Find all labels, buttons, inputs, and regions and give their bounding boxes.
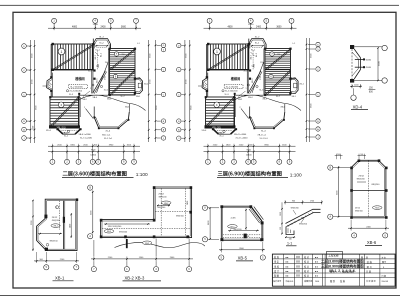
svg-text:XL-2 240x300: XL-2 240x300 (70, 87, 83, 89)
svg-text:Φ8: Φ8 (247, 235, 250, 238)
detail XD-4 landing bars with arrows (355, 58, 364, 60)
plan 1 bottom slab circle label 4 (58, 102, 64, 108)
plan 1 dashed beam outline (69, 85, 88, 89)
detail XB-2 bottom bubbles (91, 267, 96, 272)
detail XB-5 interior dashed lines (223, 234, 262, 236)
detail XB-6 outer walls (351, 160, 386, 218)
svg-text:L-1: L-1 (293, 43, 296, 45)
svg-text:5: 5 (253, 161, 255, 164)
svg-text:C: C (163, 94, 165, 96)
plan 1 stair slab hatched top-left (52, 44, 93, 70)
svg-text:二层(3.600)楼面结构布置图: 二层(3.600)楼面结构布置图 (63, 169, 127, 177)
plan 2 stair slab hatched top-left (208, 44, 249, 70)
svg-text:校 对: 校 对 (304, 269, 310, 273)
svg-text:日 期: 日 期 (382, 274, 387, 278)
svg-text:1: 1 (246, 88, 247, 90)
svg-text:4: 4 (155, 268, 157, 271)
svg-text:7: 7 (76, 266, 78, 269)
svg-text:批 准: 批 准 (274, 255, 280, 259)
svg-text:Φ8@150: Φ8@150 (176, 215, 184, 218)
section 1-1 left dim (281, 202, 283, 234)
floor plan 1 grid bubbles top row (52, 18, 57, 23)
detail XD-4 bubble top right (382, 45, 387, 50)
svg-text:XB-2: XB-2 (164, 203, 168, 205)
svg-text:J: J (178, 138, 179, 140)
svg-text:图 别: 图 别 (330, 279, 335, 283)
svg-text:4800: 4800 (72, 26, 78, 28)
svg-text:2700: 2700 (186, 79, 188, 84)
plan 2 right band circle labels (270, 52, 274, 56)
svg-text:150: 150 (277, 54, 280, 56)
svg-text:A: A (163, 129, 165, 132)
svg-text:1800: 1800 (254, 64, 256, 68)
detail XB-1 outer walls (37, 199, 77, 250)
detail XB-2 vertical stems (126, 239, 128, 248)
svg-text:XB-2: XB-2 (83, 99, 87, 101)
svg-text:XL-2 240x300: XL-2 240x300 (226, 87, 239, 89)
svg-text:2700: 2700 (32, 79, 34, 84)
plan 1 bottom-left slab hatched (50, 97, 79, 127)
svg-text:3000: 3000 (91, 210, 93, 215)
plan 2 break wavy line (233, 95, 301, 110)
svg-text:5: 5 (46, 266, 48, 269)
svg-text:Φ8@200: Φ8@200 (158, 195, 167, 198)
detail XD-4 bubble bottom left (351, 95, 356, 100)
detail XB-1 inner labels (56, 206, 59, 209)
svg-text:2400: 2400 (256, 26, 262, 28)
svg-text:■ ■: ■ ■ (315, 266, 318, 268)
svg-text:C: C (23, 70, 25, 72)
detail XB-1 corner columns (44, 215, 47, 219)
svg-text:Φ8@240: Φ8@240 (119, 231, 128, 234)
title block table outer border (272, 254, 395, 286)
svg-text:1: 1 (216, 50, 218, 54)
svg-text:KL-1: KL-1 (251, 50, 256, 52)
svg-text:4: 4 (95, 20, 97, 23)
detail XB-6 top-left mini dim (335, 155, 343, 157)
svg-text:XD-2: XD-2 (250, 55, 252, 59)
svg-text:11240: 11240 (92, 24, 98, 26)
svg-text:2Φ12: 2Φ12 (158, 192, 164, 195)
svg-text:1650: 1650 (280, 212, 282, 216)
svg-text:■ ■: ■ ■ (315, 276, 318, 278)
svg-text:C: C (163, 69, 165, 71)
svg-text:Φ8@200: Φ8@200 (291, 207, 300, 210)
svg-text:2004: 2004 (315, 281, 319, 283)
detail XD-4 leader line top (354, 46, 382, 48)
svg-text:图号: 图号 (382, 260, 386, 264)
svg-text:9: 9 (133, 161, 135, 164)
svg-text:2: 2 (84, 107, 85, 109)
svg-text:XB-1: XB-1 (136, 96, 140, 98)
svg-text:设 计: 设 计 (274, 269, 280, 273)
svg-text:5: 5 (221, 256, 223, 259)
plan 1 bottom slab diagonal (51, 98, 78, 127)
svg-text:Q6: Q6 (96, 66, 98, 68)
detail XB-2 corner columns (153, 186, 156, 189)
svg-text:6: 6 (92, 161, 94, 164)
detail XB-5 left dim line (209, 208, 211, 239)
svg-text:XL-7: XL-7 (121, 96, 125, 98)
plan 1 slab diagonal arrow (53, 45, 92, 69)
detail XB-6 top mini dim (358, 155, 367, 157)
svg-text:2: 2 (66, 161, 68, 164)
detail XB-1 interior dashed line (59, 201, 61, 230)
svg-text:3000: 3000 (336, 190, 338, 195)
detail XB-1 interior wall (63, 201, 65, 250)
svg-text:1: 1 (209, 20, 211, 23)
svg-text:Φ240: Φ240 (366, 58, 372, 61)
detail XB-1 interior dim line (38, 233, 62, 235)
detail XB-2 bottom dim line (91, 258, 193, 260)
svg-text:D: D (317, 44, 319, 46)
svg-text:楼面结构图: 楼面结构图 (342, 269, 355, 273)
svg-text:3900: 3900 (239, 248, 244, 250)
svg-text:900: 900 (360, 154, 363, 156)
svg-text:B: B (329, 167, 331, 170)
svg-text:5: 5 (98, 161, 100, 164)
svg-text:XL-1: XL-1 (88, 71, 92, 73)
svg-text:Φ8@150: Φ8@150 (50, 240, 59, 243)
svg-text:成图日期: 成图日期 (304, 279, 312, 283)
svg-text:XB-1 L=1: XB-1 L=1 (258, 135, 267, 137)
svg-text:8: 8 (204, 207, 206, 210)
svg-text:XB-1: XB-1 (292, 96, 296, 98)
detail XB-6 centre dashed line (368, 160, 370, 218)
plan 2 bottom bay window (213, 129, 219, 134)
svg-text:■ ■: ■ ■ (286, 257, 289, 259)
section 1-1 bottom support (286, 227, 294, 235)
plan 1 right bay window (135, 78, 143, 94)
svg-text:KL-2: KL-2 (256, 53, 258, 57)
svg-text:B: B (163, 121, 165, 123)
detail XB-6 mid wall (351, 189, 386, 191)
detail XB-2 XB-3 outer walls L-shape (101, 187, 192, 238)
section 1-1 inclined flight slab with landing (287, 213, 321, 227)
detail XB-1 bottom bubbles (44, 265, 49, 270)
svg-text:XD-3: XD-3 (252, 79, 254, 83)
svg-text:校 对: 校 对 (304, 264, 310, 268)
svg-text:结 施: 结 施 (340, 279, 346, 283)
svg-text:2700: 2700 (105, 76, 107, 80)
svg-text:XB-3: XB-3 (145, 243, 149, 245)
title block horizontal rules (272, 258, 395, 260)
svg-text:2400: 2400 (187, 201, 189, 205)
svg-text:XL-1: XL-1 (244, 71, 248, 73)
svg-text:B: B (23, 121, 25, 123)
svg-text:3300: 3300 (32, 53, 34, 58)
svg-text:XB-5: XB-5 (238, 255, 248, 260)
section 1-1 top dimension line (285, 201, 322, 203)
svg-text:三层(6.900)楼面结构布置图: 三层(6.900)楼面结构布置图 (321, 263, 364, 268)
detail XB-2 interior dashed lines (160, 188, 162, 236)
svg-text:L-1: L-1 (137, 43, 140, 45)
plan 2 top bay window (249, 39, 267, 49)
svg-text:XL-3 240x300: XL-3 240x300 (225, 91, 238, 93)
svg-text:2Φ12: 2Φ12 (52, 216, 58, 219)
svg-text:图 号: 图 号 (367, 265, 373, 269)
svg-text:XL-5 L=2440: XL-5 L=2440 (80, 138, 93, 140)
left grid bubbles of plan 1 (30, 40, 32, 143)
svg-text:XL-1: XL-1 (64, 136, 68, 138)
svg-text:XB-3: XB-3 (107, 231, 111, 233)
svg-text:1: 1 (126, 268, 128, 271)
svg-text:Φ8@200: Φ8@200 (299, 223, 308, 226)
svg-text:审 定: 审 定 (274, 260, 280, 264)
svg-text:Q6: Q6 (252, 66, 254, 68)
svg-text:1: 1 (61, 50, 63, 54)
svg-text:900: 900 (292, 201, 295, 203)
detail XD-4 dashed axis (351, 49, 353, 79)
svg-text:三层(6.900)楼面结构布置图: 三层(6.900)楼面结构布置图 (218, 169, 282, 177)
svg-text:Φ8@150: Φ8@150 (355, 210, 363, 213)
svg-text:1: 1 (90, 88, 91, 90)
svg-text:XL-6: XL-6 (259, 90, 263, 92)
svg-text:A: A (317, 128, 319, 131)
svg-text:150: 150 (122, 54, 125, 56)
svg-text:3600: 3600 (156, 105, 158, 110)
detail XB-1 bottom dim line (34, 260, 79, 262)
svg-text:7: 7 (135, 20, 137, 23)
svg-text:XL-1: XL-1 (220, 136, 224, 138)
svg-text:3300: 3300 (150, 53, 152, 58)
svg-text:3300: 3300 (31, 220, 33, 225)
plan 2 slab diagonal arrow (209, 45, 248, 69)
svg-text:XD-1: XD-1 (144, 84, 148, 86)
svg-text:XL-2: XL-2 (255, 37, 260, 39)
svg-text:XB-1 L=1: XB-1 L=1 (102, 135, 111, 137)
svg-text:Φ8@200: Φ8@200 (357, 177, 366, 180)
section 1-1 bottom dim (285, 236, 295, 238)
svg-text:XD-4: XD-4 (46, 130, 52, 132)
svg-text:XB-4: XB-4 (248, 97, 253, 99)
plan 2 top dimension line (204, 27, 297, 29)
svg-text:KL-2: KL-2 (101, 53, 103, 57)
svg-text:XB-6: XB-6 (375, 208, 379, 210)
svg-text:C: C (178, 69, 180, 71)
svg-text:1700: 1700 (310, 201, 314, 203)
svg-text:设计证号: 设计证号 (273, 279, 281, 283)
svg-text:1: 1 (53, 20, 55, 23)
detail XD-4 bay outline (354, 49, 360, 79)
svg-text:XL-3: XL-3 (225, 94, 229, 96)
svg-text:7: 7 (93, 268, 95, 271)
svg-text:150: 150 (280, 227, 282, 230)
plan 1 top bay window (93, 39, 111, 49)
svg-text:XL-2: XL-2 (99, 37, 104, 39)
plan 1 lower-right building edge (94, 112, 129, 128)
plan 1 right band diagonals (110, 49, 134, 69)
svg-text:1200: 1200 (33, 126, 35, 130)
svg-text:XB-4: XB-4 (93, 97, 98, 99)
svg-text:3600: 3600 (191, 105, 193, 110)
svg-text:XB-3: XB-3 (107, 99, 111, 101)
svg-text:共 张: 共 张 (382, 255, 386, 259)
svg-text:XB-4 L=3300: XB-4 L=3300 (79, 134, 92, 136)
svg-text:5: 5 (204, 238, 206, 241)
svg-text:某某: 某某 (296, 269, 300, 273)
svg-text:4: 4 (353, 234, 355, 237)
detail XB-1 left dim line (32, 200, 34, 251)
svg-text:某某: 某某 (296, 264, 300, 268)
svg-text:XL-4: XL-4 (106, 130, 111, 132)
svg-text:1:100: 1:100 (290, 173, 302, 179)
svg-text:3300: 3300 (378, 61, 380, 66)
svg-text:14400: 14400 (90, 154, 96, 156)
plan 1 top dimension line (48, 27, 141, 29)
plan 1 grid bubbles bottom row (50, 159, 55, 164)
plan 1 bottom bay window (58, 129, 64, 134)
page top hairline (0, 4, 399, 6)
plan 1 leader labels bottom (93, 107, 95, 117)
svg-text:■ ■: ■ ■ (315, 271, 318, 273)
svg-text:8: 8 (123, 161, 125, 164)
svg-text:2: 2 (222, 161, 224, 164)
XB-1 right grid bubbles (88, 185, 93, 190)
detail XB-5 bottom dim line (219, 249, 265, 251)
svg-text:校 对: 校 对 (304, 274, 310, 278)
plan 1 right slab band hatched (110, 49, 136, 96)
svg-text:2100: 2100 (60, 259, 65, 261)
svg-text:2700: 2700 (150, 79, 152, 84)
svg-text:150: 150 (260, 62, 263, 64)
svg-text:XL-1 2=1: XL-1 2=1 (260, 138, 269, 140)
svg-text:14400: 14400 (246, 154, 252, 156)
detail XD-4 right dim line (377, 48, 379, 81)
svg-text:■ ■: ■ ■ (286, 271, 289, 273)
plan 2 right bay window (291, 78, 299, 94)
svg-text:XB-3: XB-3 (263, 99, 267, 101)
svg-text:某某: 某某 (296, 255, 300, 259)
plan 2 leader labels bottom (249, 107, 251, 117)
detail XD-4 bottom dim (350, 85, 362, 87)
detail XB-5 corner columns (220, 205, 223, 208)
svg-text:■ ■: ■ ■ (286, 262, 289, 264)
svg-text:3: 3 (233, 161, 235, 164)
svg-text:XL-6: XL-6 (104, 90, 108, 92)
svg-text:C: C (317, 94, 319, 96)
svg-text:Φ240: Φ240 (366, 66, 372, 69)
detail XD-4 leader line bottom (354, 80, 382, 82)
svg-text:2-Φ6: 2-Φ6 (231, 217, 237, 220)
detail XB-5 stair diagonal strip (252, 207, 262, 221)
svg-text:XB-2 XB-3: XB-2 XB-3 (125, 275, 145, 280)
svg-text:楼梯间: 楼梯间 (231, 76, 241, 81)
plan 1 left bay window (47, 78, 52, 90)
svg-text:Φ8@240: Φ8@240 (371, 183, 380, 186)
detail XB-5 outer walls (221, 206, 262, 240)
svg-text:XB: XB (302, 218, 305, 220)
plan 2 walls (206, 44, 208, 78)
svg-text:XL-1 2=1: XL-1 2=1 (104, 138, 113, 140)
svg-text:5: 5 (110, 20, 112, 23)
plan 1 bottom dimension lines (48, 145, 140, 147)
svg-text:2Φ12: 2Φ12 (359, 174, 365, 177)
svg-text:XD-4: XD-4 (202, 130, 208, 132)
plan 2 grid bubbles bottom row (205, 159, 210, 164)
svg-text:3600: 3600 (276, 26, 282, 28)
svg-text:XD-4: XD-4 (353, 104, 363, 109)
svg-text:3300: 3300 (310, 53, 312, 58)
svg-text:5: 5 (266, 20, 268, 23)
svg-text:楼梯间: 楼梯间 (75, 76, 85, 81)
plan 2 left bay window (202, 78, 207, 90)
title block vertical rules (283, 254, 285, 286)
plan 2 dashed beam outline (224, 85, 243, 89)
svg-text:3300: 3300 (186, 53, 188, 58)
svg-text:Φ8@200: Φ8@200 (52, 219, 61, 222)
svg-text:7: 7 (291, 20, 293, 23)
plan 2 lower-right building edge (250, 112, 285, 128)
svg-text:1-1: 1-1 (287, 241, 292, 245)
svg-text:甲级0101: 甲级0101 (286, 279, 294, 283)
svg-text:900: 900 (249, 144, 252, 146)
svg-text:XD-2: XD-2 (95, 55, 97, 59)
svg-text:900: 900 (94, 144, 97, 146)
plan 2 bottom-left slab hatched (206, 97, 235, 127)
plan 2 slab circle label 1 (214, 48, 221, 55)
svg-text:XB-5: XB-5 (125, 107, 129, 109)
svg-text:3: 3 (78, 161, 80, 164)
svg-text:校 对: 校 对 (304, 255, 310, 259)
svg-text:图: 图 (361, 255, 363, 259)
svg-text:240: 240 (337, 154, 340, 156)
detail XB-5 left bubbles (202, 205, 207, 210)
svg-text:6: 6 (248, 161, 250, 164)
svg-text:3600: 3600 (35, 105, 37, 110)
svg-text:■ ■: ■ ■ (286, 276, 289, 278)
svg-text:3600: 3600 (310, 103, 312, 108)
svg-text:KL-1: KL-1 (96, 50, 101, 52)
svg-text:A: A (329, 216, 331, 219)
svg-text:2004.08: 2004.08 (382, 281, 389, 283)
svg-text:KL-2: KL-2 (255, 42, 260, 44)
right grid bubbles of plan 1 (148, 40, 150, 142)
svg-text:2Φ12 Φ8@200: 2Φ12 Φ8@200 (108, 225, 122, 228)
detail XD-4 column top (350, 45, 354, 49)
plan 2 interior walls and stair arrow (246, 70, 248, 94)
svg-text:2400: 2400 (208, 220, 210, 225)
plan 2 bottom dimension lines (204, 145, 296, 147)
svg-text:XB-4 L=3300: XB-4 L=3300 (234, 134, 247, 136)
plan 1 right band circle labels (114, 52, 118, 56)
svg-text:XL-7: XL-7 (276, 96, 280, 98)
svg-text:2400: 2400 (69, 224, 71, 228)
svg-text:XL-4: XL-4 (261, 130, 266, 132)
svg-text:XB-1: XB-1 (55, 275, 65, 280)
plan 2 right band diagonals (266, 49, 290, 69)
svg-text:某某: 某某 (296, 260, 300, 264)
plan 2 right slab band hatched (265, 49, 291, 96)
svg-text:■ ■: ■ ■ (315, 257, 318, 259)
svg-text:共 张 第 张: 共 张 第 张 (366, 279, 376, 283)
svg-text:2700: 2700 (260, 76, 262, 80)
svg-text:A: A (23, 128, 25, 131)
svg-text:■ ■: ■ ■ (286, 266, 289, 268)
svg-text:A: A (89, 235, 91, 238)
detail XD-4 column bottom (350, 79, 354, 83)
svg-text:A: A (178, 129, 180, 132)
left grid bubbles of plan 2 (184, 40, 186, 142)
detail XB-5 bottom bubbles (219, 255, 224, 260)
svg-text:二层(3.600)楼面结构布置图: 二层(3.600)楼面结构布置图 (321, 259, 364, 264)
svg-text:日 期: 日 期 (366, 269, 372, 273)
svg-text:2400: 2400 (100, 26, 106, 28)
svg-text:Φ8@240: Φ8@240 (157, 206, 166, 209)
detail XB-6 bottom bubbles (352, 233, 357, 238)
plan 1 slab circle label 1 (58, 48, 65, 55)
svg-text:150: 150 (105, 62, 108, 64)
